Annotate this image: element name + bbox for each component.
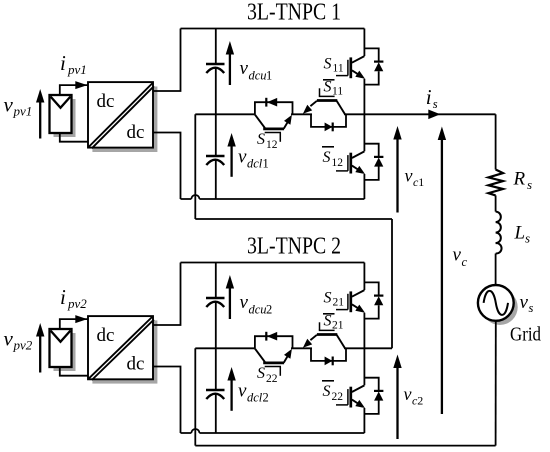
svg-text:v: v [4,326,14,350]
transistor S11 (upper IGBT) [349,57,352,78]
svg-text:v: v [238,381,247,402]
svg-text:S: S [324,79,332,96]
wire: dc/dc 1 output top [153,29,181,92]
arrow v_c2 [396,367,398,440]
arrow v_c1 [396,138,398,213]
diode of S-bar-12 [364,144,378,157]
svg-text:pv1: pv1 [13,103,33,118]
svg-text:pv2: pv2 [67,296,87,311]
transistor S21 (upper IGBT) [349,291,352,312]
svg-text:dc: dc [97,91,115,112]
svg-text:dcu: dcu [249,303,267,317]
svg-text:12: 12 [332,157,344,169]
svg-text:11: 11 [333,63,344,75]
wire: DC+ rail converter 2 [181,262,365,264]
diode of S-bar-11 (loop below) [311,114,346,127]
wire: dc/dc 2 output top [153,263,181,326]
svg-text:22: 22 [266,373,278,385]
svg-text:11: 11 [332,86,343,98]
svg-text:S: S [324,313,332,330]
diode of S21 [364,282,378,295]
wire: midpoint drop converter 1 [194,114,196,219]
arrow v_dcl1 [230,145,232,177]
wire: dc/dc 1 output bottom [153,133,181,200]
wire: converter 1 midpoint bus [195,218,392,220]
svg-text:i: i [426,85,432,109]
arrow i_pv1 [75,81,87,89]
resistor Rs [488,170,503,196]
svg-text:S: S [324,55,332,72]
wire: DC+ rail converter 1 [181,28,365,30]
wire: PV2 bottom lead [60,367,88,376]
svg-text:21: 21 [333,297,345,309]
diode of S-bar-21 (loop below) [311,348,346,361]
svg-text:s: s [433,97,438,111]
capacitor Cdcu2 [206,297,225,299]
svg-text:2: 2 [263,391,269,405]
wire: between Rs and Ls [495,195,497,211]
svg-text:12: 12 [266,139,278,151]
label S-bar_11 [323,79,335,81]
svg-text:1: 1 [266,69,272,83]
svg-text:s: s [525,231,530,246]
label S-bar_22 [322,380,334,382]
wire: DC- rail converter 2 (hops over midpoint drop) [181,432,365,434]
svg-text:i: i [60,285,66,309]
svg-text:R: R [513,169,526,190]
label S-bar_21 [323,313,335,315]
transistor S-bar-21 (bidirectional branch, right) [319,329,335,331]
wire: converter 1 output line (i_s) [344,113,496,115]
AC source v_s [478,285,514,321]
svg-text:L: L [514,223,526,244]
dc/dc converter 1 [88,82,153,148]
wire: capacitor midpoint line converter 1 [195,113,255,115]
wire: grid branch top [495,114,497,169]
wire: PV2 top lead [60,319,88,329]
transistor S-bar-11 (bidirectional branch, right) [319,95,335,97]
AC source v_s shadow [482,289,518,325]
svg-text:v: v [240,58,249,79]
arrow v_pv2 [39,335,41,373]
svg-text:1: 1 [263,157,269,171]
svg-text:2: 2 [417,394,423,408]
svg-text:3L-TNPC 2: 3L-TNPC 2 [247,234,341,260]
inductor Ls [496,212,502,254]
wire: grid branch bottom [495,321,497,446]
transistor S12 (bidirectional branch, left) [255,115,265,128]
svg-text:dc: dc [127,353,145,374]
svg-text:v: v [4,92,14,116]
svg-text:pv1: pv1 [67,62,87,77]
svg-text:1: 1 [418,175,424,189]
dc/dc converter 2 shadow [92,320,157,383]
arrow v_dcl2 [230,379,232,411]
svg-text:v: v [240,292,249,313]
label S-bar_12 [322,146,334,148]
diode of S22 (loop above) [255,336,293,348]
svg-text:v: v [238,147,247,168]
capacitor Cdcl2 [206,389,225,391]
svg-text:s: s [527,177,532,192]
PV panel 1 [50,95,72,133]
wire: converter 2 return bus (bottom) [195,445,495,447]
diode of S-bar-22 [364,378,378,391]
PV panel 1 shadow [54,99,76,137]
capacitor Cdcu1 [206,63,225,65]
arrow i_s [428,110,440,120]
transistor S-bar-12 (lower IGBT) [349,153,352,174]
PV panel 2 [50,329,72,367]
svg-text:S: S [257,365,265,382]
dc/dc converter 1 shadow [92,87,157,153]
svg-text:22: 22 [332,391,344,403]
svg-text:c: c [462,255,468,269]
svg-text:S: S [324,289,332,306]
svg-text:v: v [520,292,529,313]
wire: capacitor midpoint line converter 2 [195,347,255,349]
svg-text:S: S [323,149,331,166]
wire: dc/dc 2 output bottom [153,367,181,434]
transistor S22 (bidirectional branch, left) [255,349,265,362]
wire: branch mid segment converter 1 [291,113,312,115]
wire: DC- rail converter 1 (hops over midpoint drop) [181,198,365,200]
wire: midpoint drop converter 2 [194,348,196,445]
arrow v_dcu1 [229,53,231,85]
arrow i_pv2 [75,315,87,323]
wire: capacitor column converter 1 [215,29,217,200]
svg-text:2: 2 [266,303,272,317]
svg-text:21: 21 [332,320,344,332]
diode of S12 (loop above) [255,102,293,114]
capacitor Cdcl1 [206,155,225,157]
PV panel 2 shadow [54,333,76,371]
arrow v_c (total) [441,139,443,415]
dc/dc converter 2 [88,316,153,379]
svg-text:3L-TNPC 1: 3L-TNPC 1 [247,0,341,26]
wire: converter 2 phase line [344,347,392,349]
svg-text:dc: dc [127,122,145,143]
svg-text:dcu: dcu [249,69,267,83]
svg-text:pv2: pv2 [13,337,33,352]
diode of S11 [364,48,378,61]
svg-text:dcl: dcl [247,157,263,171]
svg-text:dc: dc [97,325,115,346]
svg-text:dcl: dcl [247,391,263,405]
svg-text:S: S [257,131,265,148]
wire: capacitor column converter 2 [215,263,217,434]
wire: phase leg converter 1 [363,29,365,200]
wire: between Ls and source [495,254,497,285]
wire: series link bus to converter 2 phase [391,219,393,348]
svg-text:v: v [404,384,412,404]
wire: PV1 top lead [60,85,88,95]
svg-text:i: i [60,51,66,75]
arrow v_dcu2 [229,287,231,319]
svg-text:Grid: Grid [510,324,541,346]
svg-text:s: s [529,301,534,315]
wire: PV1 bottom lead [60,133,88,142]
wire: branch mid segment converter 2 [291,347,312,349]
wire: phase leg converter 2 [363,263,365,434]
svg-text:v: v [405,166,413,186]
svg-text:v: v [453,245,462,266]
svg-text:S: S [323,383,331,400]
transistor S-bar-22 (lower IGBT) [349,387,352,408]
arrow v_pv1 [39,101,41,139]
